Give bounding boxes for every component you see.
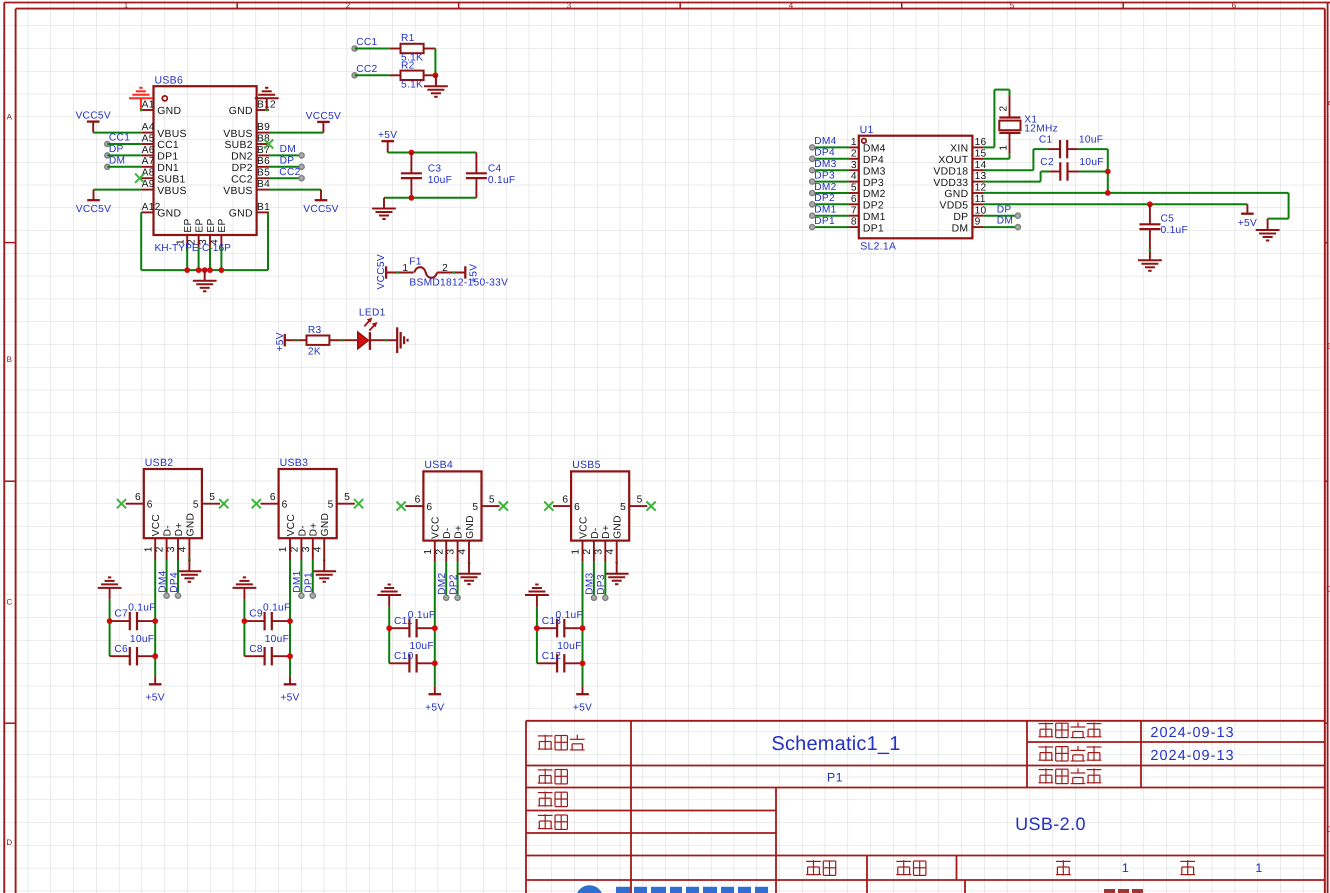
- net CC1: [105, 141, 110, 146]
- capacitor C9 0.1uF: [244, 620, 264, 622]
- svg-text:1: 1: [571, 549, 582, 555]
- label 尺寸: [896, 860, 911, 862]
- svg-text:6: 6: [1232, 1, 1237, 10]
- svg-text:1: 1: [999, 145, 1010, 151]
- svg-text:16: 16: [975, 137, 987, 148]
- wire D+ to net DP1: [312, 560, 314, 596]
- connector USB3: [279, 469, 337, 538]
- ground (flipped) above C9: [233, 587, 257, 589]
- svg-text:USB2: USB2: [145, 457, 174, 469]
- connector USB5: [571, 471, 629, 540]
- svg-text:2024-09-13: 2024-09-13: [1150, 725, 1234, 741]
- svg-text:DP1: DP1: [863, 223, 884, 234]
- svg-text:EP: EP: [183, 218, 194, 232]
- svg-text:+5V: +5V: [425, 702, 444, 713]
- wire EP ground bus: [141, 269, 268, 271]
- svg-text:3: 3: [446, 549, 457, 555]
- label cell 图页: [538, 769, 553, 771]
- svg-text:VBUS: VBUS: [223, 129, 253, 140]
- svg-text:5: 5: [851, 183, 857, 194]
- svg-text:10uF: 10uF: [1079, 135, 1103, 146]
- svg-text:DM3: DM3: [814, 159, 836, 170]
- svg-text:DP2: DP2: [814, 193, 835, 204]
- svg-text:4: 4: [457, 549, 468, 555]
- svg-text:3: 3: [301, 546, 312, 552]
- ground at USB2 pin4: [188, 559, 191, 562]
- wire VCC5V to A4: [93, 132, 141, 134]
- svg-text:1: 1: [1122, 861, 1129, 875]
- resistor R3 2K: [285, 339, 307, 341]
- svg-text:5: 5: [328, 500, 334, 511]
- svg-text:CC1: CC1: [157, 140, 179, 151]
- svg-text:DP2: DP2: [448, 574, 459, 595]
- wire R1 to R2 junction: [434, 49, 436, 76]
- svg-text:1: 1: [1255, 861, 1262, 875]
- svg-text:VDD33: VDD33: [933, 178, 968, 189]
- svg-text:DM2: DM2: [863, 189, 886, 200]
- svg-text:D+: D+: [174, 522, 185, 536]
- label cell 绘制: [538, 792, 553, 794]
- svg-text:6: 6: [135, 492, 141, 503]
- capacitor C7 0.1uF: [110, 620, 130, 622]
- svg-text:VCC: VCC: [151, 514, 162, 536]
- net DP (U1): [984, 215, 1018, 217]
- svg-text:VCC5V: VCC5V: [306, 111, 341, 122]
- crystal X1 12MHz: [1009, 96, 1011, 117]
- svg-text:1: 1: [402, 263, 408, 274]
- svg-text:DN1: DN1: [157, 163, 179, 174]
- svg-text:C5: C5: [1161, 213, 1175, 224]
- svg-text:5: 5: [1010, 1, 1015, 10]
- svg-text:0.1uF: 0.1uF: [263, 603, 291, 614]
- svg-text:USB6: USB6: [155, 74, 184, 86]
- svg-text:+5V: +5V: [468, 264, 479, 283]
- wire VCC rail of USB2: [154, 560, 156, 677]
- svg-text:DP3: DP3: [596, 574, 607, 595]
- svg-text:10uF: 10uF: [1079, 157, 1103, 168]
- svg-text:DP: DP: [280, 155, 295, 166]
- svg-text:C4: C4: [488, 163, 502, 174]
- svg-text:XIN: XIN: [950, 144, 968, 155]
- svg-text:VBUS: VBUS: [223, 186, 253, 197]
- svg-text:DP1: DP1: [304, 572, 315, 593]
- svg-text:A7: A7: [142, 156, 155, 167]
- wire XIN to crystal pin2: [984, 146, 995, 148]
- svg-text:D+: D+: [454, 525, 465, 539]
- svg-text:2K: 2K: [308, 347, 321, 358]
- svg-text:GND: GND: [185, 513, 196, 537]
- svg-text:3: 3: [166, 546, 177, 552]
- power +5V (USB3): [289, 676, 291, 684]
- svg-text:DM2: DM2: [437, 572, 448, 594]
- fuse F1 BSMD1812-150-33V: [386, 272, 413, 274]
- svg-text:SL2.1A: SL2.1A: [860, 241, 896, 252]
- svg-text:DM1: DM1: [292, 570, 303, 592]
- svg-text:D-: D-: [442, 527, 453, 538]
- wire B4 to VCC5V: [269, 189, 321, 191]
- svg-text:GND: GND: [320, 513, 331, 537]
- wire cap rail of USB3: [243, 600, 245, 656]
- svg-text:10: 10: [975, 205, 987, 216]
- ground (bright) at pin A1: [140, 98, 142, 110]
- svg-text:12MHz: 12MHz: [1024, 123, 1058, 134]
- svg-text:2: 2: [434, 549, 445, 555]
- svg-text:0.1uF: 0.1uF: [408, 610, 436, 621]
- power VCC5V left bottom: [93, 190, 95, 201]
- USB5 pins 6/5: [553, 505, 571, 507]
- svg-text:4: 4: [605, 549, 616, 555]
- capacitor C2 10uF: [984, 181, 1041, 183]
- svg-text:CC2: CC2: [279, 167, 300, 178]
- svg-text:5.1K: 5.1K: [401, 79, 423, 90]
- ground (flipped) above C7: [98, 587, 122, 589]
- svg-text:10uF: 10uF: [557, 641, 581, 652]
- svg-text:C10: C10: [394, 651, 414, 662]
- svg-text:CC2: CC2: [231, 174, 253, 185]
- wire VCC5V to A9: [94, 189, 142, 191]
- svg-text:CC2: CC2: [356, 64, 377, 75]
- svg-text:A6: A6: [142, 145, 155, 156]
- net DP right: [299, 164, 304, 169]
- svg-text:USB-2.0: USB-2.0: [1015, 814, 1086, 834]
- wire VCC rail of USB3: [289, 560, 291, 677]
- wire B5 to CC2: [269, 177, 302, 179]
- svg-text:VCC: VCC: [431, 516, 442, 538]
- svg-text:DM4: DM4: [157, 570, 168, 592]
- label cell 审阅: [538, 814, 553, 816]
- svg-text:DM3: DM3: [863, 166, 886, 177]
- wire CC1 to R1: [355, 48, 390, 50]
- svg-text:2024-09-13: 2024-09-13: [1150, 748, 1234, 764]
- connector USB6 KH-TYPE-C-16P: [154, 86, 257, 235]
- svg-text:D+: D+: [601, 525, 612, 539]
- label cell 创建日期: [1039, 746, 1054, 748]
- no-connect X pins of USB4: [397, 502, 406, 511]
- svg-text:2: 2: [155, 546, 166, 552]
- svg-text:B6: B6: [257, 156, 270, 167]
- svg-text:DP1: DP1: [814, 216, 835, 227]
- svg-text:C: C: [6, 598, 12, 607]
- svg-text:DP4: DP4: [169, 572, 180, 593]
- svg-text:DP2: DP2: [232, 163, 253, 174]
- wire cap rail of USB2: [109, 600, 111, 656]
- no-connect X pins of USB5: [544, 502, 553, 511]
- svg-text:15: 15: [975, 148, 987, 159]
- svg-text:+5V: +5V: [280, 693, 299, 704]
- no-connect X at B8: [264, 139, 273, 148]
- ground at USB4 pin4: [468, 561, 471, 564]
- svg-text:GND: GND: [229, 106, 253, 117]
- capacitor C6 10uF: [110, 655, 130, 657]
- svg-text:DP4: DP4: [863, 155, 884, 166]
- svg-text:2: 2: [999, 106, 1010, 112]
- wire D- to net DM2: [445, 562, 447, 598]
- svg-text:0.1uF: 0.1uF: [556, 610, 584, 621]
- net CC2 (R2): [352, 73, 357, 78]
- wire DM to A7: [107, 166, 141, 168]
- svg-text:CC1: CC1: [109, 133, 130, 144]
- svg-text:DM: DM: [952, 223, 969, 234]
- ground (flipped) above C13: [525, 594, 549, 596]
- svg-text:DM: DM: [109, 155, 125, 166]
- svg-text:6: 6: [426, 502, 432, 513]
- svg-text:DM1: DM1: [863, 212, 886, 223]
- USB2 bottom pins: [154, 538, 156, 559]
- svg-text:1: 1: [423, 549, 434, 555]
- svg-text:USB4: USB4: [424, 459, 453, 471]
- svg-text:A12: A12: [142, 202, 161, 213]
- USB4 pins 6/5: [405, 505, 423, 507]
- USB3 bottom pins: [289, 538, 291, 559]
- svg-text:6: 6: [415, 494, 421, 505]
- svg-text:Schematic1_1: Schematic1_1: [771, 733, 900, 755]
- svg-text:C1: C1: [1039, 135, 1053, 146]
- no-connect X at A8: [135, 174, 144, 183]
- svg-text:VDD5: VDD5: [939, 201, 968, 212]
- svg-text:F1: F1: [409, 257, 422, 268]
- svg-text:A1: A1: [142, 99, 155, 110]
- svg-text:A9: A9: [142, 179, 155, 190]
- sheet border frame: [4, 2, 1330, 4]
- wire C1/C2 to GND rail: [1107, 149, 1109, 193]
- svg-text:VCC: VCC: [286, 514, 297, 536]
- wire B7 to DM: [269, 154, 302, 156]
- svg-text:C2: C2: [1040, 157, 1054, 168]
- wire A12 down: [140, 212, 142, 270]
- svg-text:B9: B9: [257, 122, 270, 133]
- title block: [526, 720, 1325, 722]
- svg-text:C8: C8: [249, 644, 263, 655]
- wire +5V top rail: [388, 152, 477, 154]
- svg-text:B4: B4: [257, 179, 270, 190]
- ground at USB5 pin4: [615, 561, 618, 564]
- power +5V (U1): [1246, 204, 1248, 213]
- svg-text:2: 2: [851, 148, 857, 159]
- power +5V (USB5): [582, 686, 584, 694]
- connector USB2: [144, 469, 202, 538]
- svg-text:CC1: CC1: [356, 37, 377, 48]
- capacitor C11 0.1uF: [389, 627, 409, 629]
- junction R2 right: [433, 72, 439, 78]
- junction dots on EP bus: [184, 267, 190, 273]
- svg-text:EP: EP: [217, 218, 228, 232]
- svg-text:10uF: 10uF: [265, 634, 289, 645]
- net CC2 right: [299, 176, 304, 181]
- svg-text:VCC: VCC: [578, 516, 589, 538]
- logo (cut off at bottom): [576, 885, 603, 893]
- svg-text:GND: GND: [229, 209, 253, 220]
- capacitor C13 0.1uF: [537, 627, 557, 629]
- net DM: [105, 164, 110, 169]
- wire VCC rail of USB5: [582, 562, 584, 686]
- svg-text:B: B: [7, 355, 12, 364]
- svg-text:VDD18: VDD18: [933, 166, 968, 177]
- label cell 物料编码: [1039, 769, 1054, 771]
- svg-text:4: 4: [178, 546, 189, 552]
- no-connect X pins of USB3: [252, 499, 261, 508]
- ground at pin B12: [266, 98, 268, 110]
- wire bottom rail: [384, 197, 476, 199]
- wire cap rail of USB4: [388, 607, 390, 663]
- svg-text:D-: D-: [163, 525, 174, 536]
- svg-text:5: 5: [472, 502, 478, 513]
- svg-text:DP: DP: [953, 212, 968, 223]
- net DM (U1): [984, 226, 1018, 228]
- U1 pins: [849, 146, 859, 148]
- svg-text:DP3: DP3: [863, 178, 884, 189]
- svg-text:VBUS: VBUS: [157, 186, 187, 197]
- svg-text:DP: DP: [997, 204, 1012, 215]
- connector USB4: [423, 471, 481, 540]
- USB2 pins 6/5: [126, 503, 144, 505]
- wire LED to ground: [370, 339, 397, 341]
- svg-text:9: 9: [975, 217, 981, 228]
- svg-text:5: 5: [193, 500, 199, 511]
- wire B9 to VCC5V: [269, 132, 323, 134]
- ground at USB3 pin4: [323, 559, 326, 562]
- junction C3 bottom: [409, 195, 415, 201]
- svg-text:3: 3: [593, 549, 604, 555]
- svg-text:EP: EP: [194, 218, 205, 232]
- USB6 EP pins: [186, 235, 188, 248]
- svg-text:6: 6: [562, 494, 568, 505]
- svg-text:KH-TYPE-C-16P: KH-TYPE-C-16P: [155, 243, 232, 254]
- svg-text:4: 4: [312, 546, 323, 552]
- capacitor C4 0.1uF: [475, 153, 477, 174]
- wire DP to A6: [107, 154, 141, 156]
- wire D+ to net DP2: [457, 562, 459, 598]
- svg-text:10uF: 10uF: [130, 634, 154, 645]
- svg-text:+5V: +5V: [1238, 218, 1257, 229]
- svg-text:3: 3: [851, 160, 857, 171]
- svg-text:DM4: DM4: [814, 136, 836, 147]
- capacitor C3 10uF: [410, 153, 412, 174]
- svg-text:B1: B1: [257, 202, 270, 213]
- svg-text:DM1: DM1: [814, 205, 836, 216]
- power +5V (USB4): [434, 686, 436, 694]
- svg-text:+5V: +5V: [378, 130, 397, 141]
- wire XOUT to crystal pin1: [984, 158, 1010, 160]
- svg-text:1: 1: [278, 546, 289, 552]
- svg-text:DM4: DM4: [863, 144, 886, 155]
- svg-text:1: 1: [143, 546, 154, 552]
- svg-text:7: 7: [851, 205, 857, 216]
- svg-text:2: 2: [582, 549, 593, 555]
- net DM right: [299, 153, 304, 158]
- capacitor C1 10uF: [984, 169, 1034, 171]
- svg-text:DM3: DM3: [585, 572, 596, 594]
- svg-text:GND: GND: [465, 515, 476, 539]
- svg-text:VCC5V: VCC5V: [75, 111, 110, 122]
- wire GND rail: [984, 192, 1289, 194]
- LED LED1: [358, 332, 369, 349]
- svg-text:USB5: USB5: [572, 459, 601, 471]
- svg-text:GND: GND: [157, 209, 181, 220]
- svg-text:BSMD1812-150-33V: BSMD1812-150-33V: [409, 278, 508, 289]
- capacitor C12 10uF: [537, 662, 557, 664]
- svg-text:C3: C3: [428, 163, 442, 174]
- svg-text:DM: DM: [997, 216, 1013, 227]
- svg-text:10uF: 10uF: [410, 641, 434, 652]
- svg-text:LED1: LED1: [359, 307, 386, 318]
- svg-text:0.1uF: 0.1uF: [488, 175, 516, 186]
- ground under USB6: [204, 270, 206, 281]
- svg-text:C9: C9: [249, 609, 263, 620]
- wire D+ to net DP4: [177, 560, 179, 596]
- power VCC5V right bottom: [320, 190, 322, 201]
- IC U1 SL2.1A: [859, 136, 973, 239]
- U1 left net ports DM4..DP1: [812, 146, 848, 148]
- svg-text:GND: GND: [613, 515, 624, 539]
- label 页: [1056, 860, 1071, 862]
- svg-text:A5: A5: [142, 133, 155, 144]
- svg-text:VCC5V: VCC5V: [76, 204, 111, 215]
- no-connect X pins of USB2: [117, 499, 126, 508]
- svg-text:4: 4: [789, 1, 794, 10]
- svg-text:P1: P1: [827, 771, 843, 785]
- svg-text:3: 3: [567, 1, 572, 10]
- ground under C5: [1138, 259, 1162, 261]
- svg-text:DP4: DP4: [814, 148, 835, 159]
- wire B1 down: [267, 212, 269, 270]
- label 版本: [806, 860, 821, 862]
- svg-text:11: 11: [975, 194, 986, 205]
- svg-text:GND: GND: [944, 189, 968, 200]
- wire D- to net DM1: [300, 560, 302, 596]
- svg-text:R2: R2: [401, 60, 415, 71]
- svg-text:5: 5: [209, 492, 215, 503]
- svg-text:D-: D-: [590, 527, 601, 538]
- USB3 pins 6/5: [261, 503, 279, 505]
- svg-text:C6: C6: [114, 644, 128, 655]
- cut-off company text: [1104, 889, 1115, 893]
- svg-text:R3: R3: [308, 325, 322, 336]
- resistor R1 5.1K: [390, 48, 401, 50]
- label cell 原理图: [538, 735, 553, 737]
- svg-text:A: A: [7, 113, 13, 122]
- svg-text:GND: GND: [157, 106, 181, 117]
- net CC1 (R1): [352, 46, 357, 51]
- svg-text:5: 5: [620, 502, 626, 513]
- svg-text:DM: DM: [280, 144, 296, 155]
- svg-text:B5: B5: [257, 168, 270, 179]
- svg-text:A4: A4: [142, 122, 155, 133]
- svg-text:2: 2: [346, 1, 351, 10]
- wire cap rail of USB5: [536, 607, 538, 663]
- svg-text:0.1uF: 0.1uF: [1161, 225, 1189, 236]
- svg-text:D: D: [6, 838, 12, 847]
- power +5V (USB2): [154, 676, 156, 684]
- capacitor C8 10uF: [244, 655, 264, 657]
- svg-text:2: 2: [442, 263, 448, 274]
- svg-text:USB3: USB3: [280, 457, 309, 469]
- junction C3 top: [409, 150, 415, 156]
- resistor R2 5.1K: [390, 74, 401, 76]
- svg-text:C7: C7: [114, 609, 128, 620]
- svg-text:DP2: DP2: [863, 201, 884, 212]
- label 共: [1180, 860, 1195, 862]
- USB6 pins: [141, 109, 153, 111]
- svg-text:DN2: DN2: [231, 152, 253, 163]
- svg-text:1: 1: [124, 1, 129, 10]
- svg-text:6: 6: [282, 500, 288, 511]
- svg-text:10uF: 10uF: [428, 175, 452, 186]
- svg-text:6: 6: [270, 492, 276, 503]
- wire VCC rail of USB4: [434, 562, 436, 686]
- svg-text:6: 6: [574, 502, 580, 513]
- svg-text:SUB2: SUB2: [224, 140, 252, 151]
- power +5V (F1 right): [464, 266, 466, 278]
